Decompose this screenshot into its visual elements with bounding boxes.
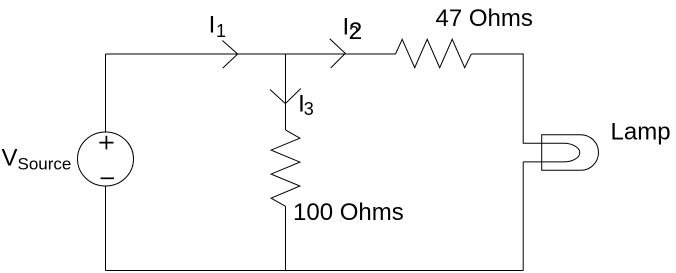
resistor R1 47 Ohms [396, 39, 472, 67]
svg-text:2: 2 [349, 23, 359, 43]
label I1 [209, 11, 226, 41]
wire top-left horizontal [106, 53, 396, 55]
wire left vertical upper [105, 54, 107, 132]
wire middle branch lower [285, 206, 287, 270]
lamp filament loop [523, 143, 580, 162]
svg-text:47 Ohms: 47 Ohms [436, 5, 533, 32]
label I3 [298, 90, 314, 119]
svg-text:Source: Source [18, 155, 72, 174]
wire bottom horizontal [106, 270, 524, 272]
svg-text:3: 3 [304, 99, 314, 119]
label VSource [2, 144, 72, 173]
svg-text:V: V [2, 144, 18, 171]
arrow I1 [222, 41, 237, 69]
svg-text:1: 1 [216, 21, 226, 41]
wire right vertical upper [522, 54, 524, 144]
wire top-right horizontal [471, 53, 523, 55]
wire middle branch upper [285, 54, 287, 130]
minus sign [101, 177, 114, 179]
wire right vertical lower [522, 162, 524, 271]
svg-text:I: I [209, 11, 216, 38]
arrow I3 [270, 89, 301, 104]
svg-text:100 Ohms: 100 Ohms [293, 199, 404, 226]
lamp outer shell [542, 135, 599, 171]
wire left vertical lower [105, 186, 107, 271]
arrow I2 [330, 39, 346, 68]
label I2 [343, 13, 363, 45]
plus sign [99, 136, 113, 150]
voltage source V circle [78, 132, 134, 186]
svg-text:Lamp: Lamp [611, 118, 671, 145]
resistor R2 100 Ohms [271, 130, 300, 206]
